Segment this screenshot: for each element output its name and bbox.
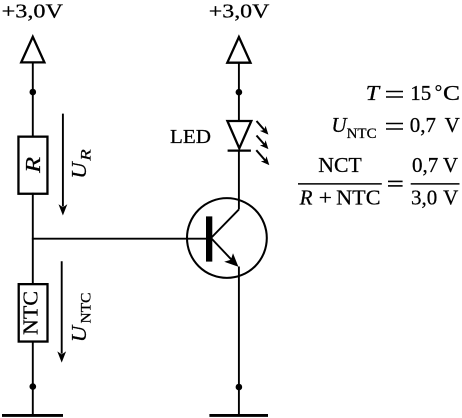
- svg-text:0,7: 0,7: [412, 153, 438, 177]
- svg-text:C: C: [443, 81, 460, 105]
- transistor emitter line: [211, 238, 234, 262]
- svg-text:NTC: NTC: [79, 293, 95, 324]
- equation fraction NCT over R+NTC: [298, 153, 382, 210]
- node dot left top: [30, 89, 37, 96]
- transistor Q1 circle: [187, 198, 267, 278]
- resistor R: [18, 137, 47, 194]
- equation fraction 0,7V over 3,0V: [411, 153, 460, 210]
- svg-text:R: R: [79, 149, 95, 162]
- svg-text:V: V: [443, 185, 458, 209]
- svg-text:NTC: NTC: [336, 185, 380, 209]
- svg-text:+3,0V: +3,0V: [209, 1, 270, 23]
- svg-text:+3,0V: +3,0V: [2, 1, 64, 23]
- supply symbol right: [227, 37, 250, 63]
- ground left: [2, 414, 63, 417]
- equation U_NTC = 0,7V: [331, 113, 459, 142]
- svg-text:NTC: NTC: [347, 126, 377, 142]
- LED emission arrow 1: [257, 121, 269, 135]
- LED D1: [227, 121, 251, 151]
- transistor base bar: [206, 216, 212, 261]
- voltage arrow U_R: [59, 114, 68, 216]
- svg-text:V: V: [445, 113, 460, 137]
- svg-text:+: +: [319, 185, 332, 209]
- svg-text:3,0: 3,0: [411, 185, 437, 209]
- wire LED to transistor: [238, 151, 240, 210]
- ground right: [209, 414, 268, 417]
- svg-text:U: U: [67, 160, 91, 178]
- wire left middle: [32, 193, 34, 284]
- svg-text:15: 15: [410, 81, 431, 105]
- transistor emitter arrow: [224, 253, 238, 267]
- equation T = 15 degC: [366, 81, 460, 105]
- svg-text:T: T: [366, 81, 381, 105]
- svg-text:U: U: [67, 324, 91, 342]
- svg-text:R: R: [21, 157, 45, 174]
- svg-text:NTC: NTC: [18, 291, 42, 335]
- svg-text:R: R: [299, 185, 313, 209]
- base wire: [32, 238, 206, 240]
- node dot left bottom: [30, 383, 37, 390]
- LED emission arrow 3: [256, 150, 269, 165]
- supply symbol left: [21, 37, 44, 63]
- svg-text:NCT: NCT: [318, 153, 362, 177]
- node dot right top: [236, 89, 243, 96]
- equals between fractions: [388, 181, 403, 186]
- node dot right bottom: [236, 384, 243, 391]
- wire right top: [238, 63, 240, 121]
- svg-text:LED: LED: [170, 126, 211, 148]
- svg-text:°: °: [435, 82, 443, 103]
- wire left top: [32, 62, 34, 136]
- wire transistor to ground: [238, 267, 240, 415]
- svg-text:V: V: [443, 153, 458, 177]
- thermistor NTC: [18, 284, 47, 341]
- LED emission arrow 2: [257, 136, 269, 150]
- voltage arrow U_NTC: [57, 261, 66, 362]
- transistor collector line: [211, 209, 239, 238]
- wire left bottom: [32, 341, 34, 414]
- svg-text:0,7: 0,7: [410, 113, 436, 137]
